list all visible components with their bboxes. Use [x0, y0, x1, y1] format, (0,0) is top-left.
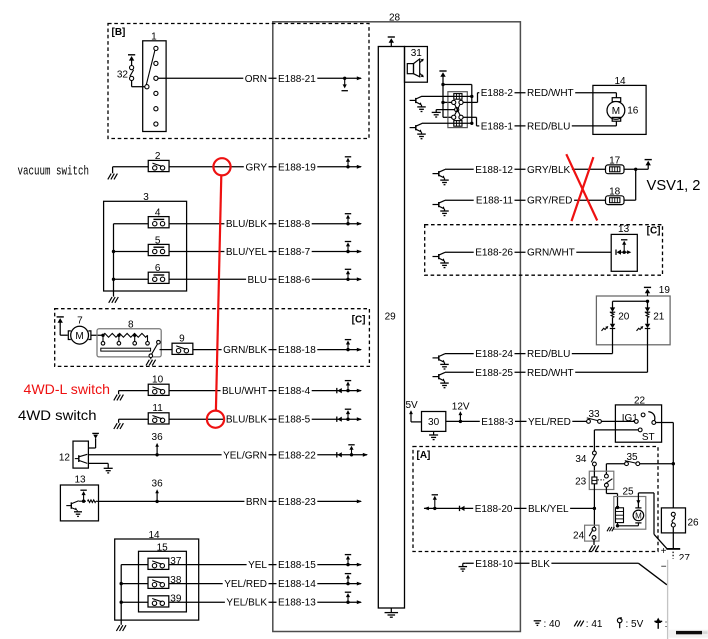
- pin label E188-6: [277, 275, 312, 286]
- wire colour label BLU/BLK: [224, 219, 268, 230]
- dashed box [C] left: [55, 309, 370, 367]
- starter switch 24: [585, 525, 599, 541]
- buzzer 31 box: [405, 47, 428, 83]
- wire colour label GRY: [244, 163, 269, 174]
- svg-text:12: 12: [59, 453, 71, 464]
- svg-text:9: 9: [179, 333, 185, 344]
- wire colour label BLU/WHT: [221, 386, 269, 397]
- wire E188-12 GRY/BLK: [445, 168, 606, 170]
- pin label E188-15: [277, 560, 318, 571]
- svg-text:ORN: ORN: [245, 74, 267, 85]
- wire colour label YEL: [247, 560, 269, 571]
- LED 21 emission arrow: [637, 327, 643, 331]
- overlay scrollbar thumb: [676, 631, 702, 634]
- svg-text:RED/BLU: RED/BLU: [527, 349, 570, 360]
- pull-up symbol on E188-15: [346, 563, 349, 566]
- svg-text:37: 37: [170, 556, 182, 567]
- wire E188-10 BLK ground: [463, 562, 465, 564]
- sensor 8 wiper track: [101, 348, 151, 351]
- sensor 12 element: [75, 458, 79, 460]
- sensor 13 series resistor: [88, 500, 96, 503]
- svg-text:29: 29: [385, 312, 397, 323]
- pull-up symbol on E188-22: [350, 453, 353, 456]
- switch 5: [148, 244, 169, 255]
- wire colour label YEL/RED: [527, 417, 573, 428]
- svg-text:E188-25: E188-25: [475, 368, 513, 379]
- svg-text:24: 24: [573, 531, 585, 542]
- transfer motor box 14: [593, 85, 646, 134]
- pin label E188-13: [277, 598, 318, 609]
- wire colour label GRY/BLK: [526, 165, 572, 176]
- pull-up symbol on E188-5: [346, 418, 349, 421]
- svg-text:35: 35: [626, 452, 638, 463]
- transistor driver T4 (E188-11): [433, 204, 439, 206]
- svg-text:BLK: BLK: [531, 559, 550, 570]
- wire GRY to pin E188-19: [169, 166, 361, 168]
- B+ feed to switch 32: [128, 54, 135, 56]
- relay coil lower: [422, 122, 472, 124]
- transistor driver T3 (E188-12): [433, 173, 439, 175]
- switch 1 common contact: [145, 85, 149, 89]
- pin label E188-21: [277, 74, 318, 85]
- wire E188-11 GRY/RED: [445, 199, 606, 201]
- wire VSV17 to B+: [624, 168, 648, 170]
- svg-text:E188-21: E188-21: [278, 74, 316, 85]
- rotary switch 1 body: [143, 41, 166, 132]
- wire E188-20 BLK/YEL: [424, 507, 429, 511]
- pull-up symbol on E188-19: [346, 165, 349, 168]
- svg-text:[C]: [C]: [647, 226, 661, 237]
- wire switch1 common to node: [132, 86, 145, 88]
- wire E188-26 GRN/WHT: [445, 251, 611, 253]
- wire colour label BLU: [246, 275, 268, 286]
- wire colour label BLU/YEL: [224, 247, 268, 258]
- svg-text:RED/BLU: RED/BLU: [527, 121, 570, 132]
- wire E188-24 RED/BLU: [445, 353, 613, 355]
- red trace line: [216, 175, 221, 410]
- svg-text:31: 31: [411, 48, 423, 59]
- relay contacts: [452, 100, 456, 104]
- svg-text:E188-26: E188-26: [475, 248, 513, 259]
- dashed box [B]: [108, 24, 369, 139]
- wire colour label RED/WHT: [526, 368, 576, 379]
- svg-text:BRN: BRN: [246, 497, 267, 508]
- starter 25 motor: [633, 510, 644, 521]
- junction node switch 38: [120, 582, 123, 585]
- svg-text:4WD-L switch: 4WD-L switch: [24, 381, 111, 397]
- wire BRN to pin E188-23: [99, 500, 362, 502]
- svg-text:E188-11: E188-11: [476, 196, 514, 207]
- sensor 13 transistor: [66, 505, 71, 507]
- pin label E188-3: [480, 417, 515, 428]
- bus wire left of switches 37-39: [121, 564, 148, 566]
- wire colour label BLU/BLK: [224, 415, 268, 426]
- B+ feed to sensor 12: [92, 432, 99, 434]
- ground 41 for switch 11: [118, 419, 120, 423]
- starter 25 solenoid coil: [616, 508, 624, 523]
- svg-text:GRY/BLK: GRY/BLK: [527, 165, 570, 176]
- pin label E188-10: [474, 559, 515, 570]
- pin label E188-22: [277, 451, 318, 462]
- svg-text:20: 20: [618, 312, 630, 323]
- wire motor 7 to sensor 8: [91, 334, 102, 336]
- wire YEL/GRN to pin E188-22: [88, 454, 367, 456]
- pin label E188-2: [479, 88, 514, 99]
- regulator 30 box: [422, 412, 446, 432]
- svg-text:−: −: [661, 561, 667, 572]
- sensor 13 body: [60, 485, 98, 521]
- wire ST to switch 34: [594, 429, 638, 431]
- transistor driver T7 (E188-25): [433, 376, 439, 378]
- pin label E188-18: [277, 345, 318, 356]
- pull-down symbol on E188-21: [343, 77, 346, 80]
- ignition switch contacts: [634, 420, 638, 424]
- transistor driver T5 (E188-26): [433, 256, 439, 258]
- pin label E188-7: [277, 247, 312, 258]
- svg-text:10: 10: [152, 375, 164, 386]
- pin label E188-1: [479, 122, 514, 133]
- svg-text:E188-10: E188-10: [475, 559, 513, 570]
- svg-text:BLU: BLU: [248, 275, 267, 286]
- motor 7: [68, 331, 71, 340]
- battery 27 positive plate: [666, 548, 680, 550]
- svg-text:E188-1: E188-1: [481, 121, 514, 132]
- position sensor 8 body: [97, 329, 161, 357]
- svg-text:13: 13: [618, 224, 630, 235]
- ground 40 in sensor 13: [74, 511, 82, 513]
- svg-text:5V: 5V: [406, 400, 419, 411]
- svg-text:8: 8: [128, 320, 134, 331]
- wire colour label YEL/BLK: [225, 598, 269, 609]
- wire VSV18 junction: [624, 199, 636, 201]
- fusible link 26 box: [661, 508, 685, 533]
- svg-text:12V: 12V: [452, 401, 470, 412]
- wire E188-3 YEL/RED: [446, 420, 587, 422]
- ignition switch 22 box: [615, 405, 661, 442]
- svg-text:: 5V: : 5V: [626, 619, 644, 630]
- wire colour label RED/WHT: [526, 88, 576, 99]
- svg-text:GRY: GRY: [246, 162, 268, 173]
- switch 9: [172, 343, 193, 354]
- wire BLU/BLK to pin E188-5: [169, 418, 361, 420]
- switch 1 contacts: [154, 46, 158, 50]
- switch 34: [593, 451, 597, 455]
- diode on E188-5: [336, 417, 338, 422]
- wire colour label RED/BLU: [526, 122, 572, 133]
- switch 4: [148, 217, 169, 228]
- vacuum switch 2: [148, 160, 169, 171]
- svg-text:4: 4: [155, 208, 161, 219]
- relay coil upper: [422, 95, 472, 97]
- svg-text:32: 32: [117, 69, 129, 80]
- pull-up symbol on E188-4: [346, 389, 349, 392]
- switch 35: [625, 462, 629, 466]
- sensor 12 body: [73, 441, 88, 468]
- wire colour label BLK: [530, 559, 552, 570]
- svg-text:E188-13: E188-13: [278, 598, 316, 609]
- svg-text:5: 5: [155, 235, 161, 246]
- wire BLU/BLK to pin E188-8: [169, 223, 361, 225]
- battery 27 dotted cell line: [672, 552, 674, 559]
- svg-text:15: 15: [157, 542, 169, 553]
- relay 23 contacts: [605, 474, 609, 478]
- wire colour label BLK/YEL: [527, 504, 571, 514]
- switch 1 lever: [146, 51, 155, 85]
- svg-text:E188-12: E188-12: [475, 165, 513, 176]
- VSV coil 17: [606, 165, 625, 174]
- wire E188-2 RED/WHT: [481, 92, 617, 94]
- wire wiper to switch 9: [160, 349, 173, 351]
- wire colour label RED/BLU: [526, 349, 572, 360]
- wire YEL/BLK to pin E188-13: [169, 601, 361, 603]
- B+ feed to motor relay: [439, 70, 446, 72]
- svg-text:1: 1: [151, 31, 157, 42]
- wire colour label BRN: [244, 497, 268, 508]
- svg-text:E188-7: E188-7: [278, 247, 311, 258]
- legend 5V symbol: [617, 618, 622, 623]
- pin label E188-24: [474, 349, 515, 360]
- ground 41 for sensor 8 wiper: [150, 358, 152, 360]
- 5V arrow: [410, 412, 412, 422]
- ground 41 for box 14: [116, 625, 119, 631]
- svg-text:+: +: [661, 546, 667, 557]
- svg-text:16: 16: [627, 106, 639, 117]
- pull-up symbol on E188-8: [346, 222, 349, 225]
- pin label E188-14: [277, 579, 318, 590]
- junction E188-20 on relay 23 line: [593, 507, 596, 510]
- B+ symbol on top of block 29: [388, 36, 395, 38]
- relay 23 coil: [593, 471, 595, 477]
- svg-text:E188-2: E188-2: [481, 88, 514, 99]
- dashed box [A]: [413, 447, 658, 552]
- bracket to E188-2: [463, 101, 477, 103]
- svg-text:33: 33: [588, 409, 600, 420]
- pull-up symbol on E188-18: [346, 348, 349, 351]
- transistor driver T2 (E188-1): [410, 127, 416, 129]
- junction node switch 6: [112, 278, 115, 281]
- svg-text:M: M: [635, 511, 642, 520]
- svg-text:E188-3: E188-3: [481, 417, 514, 428]
- wire GRN/BLK to pin E188-18: [193, 349, 361, 351]
- svg-text:2: 2: [155, 151, 161, 162]
- B+ feed for VSV: [645, 159, 652, 161]
- wire switch 33 to IG1: [601, 420, 634, 422]
- pull-up symbol on E188-7: [346, 250, 349, 253]
- legend ground 40 symbol: [534, 620, 541, 622]
- svg-text:BLU/BLK: BLU/BLK: [226, 219, 267, 230]
- noise symbol at starter 25: [607, 527, 610, 531]
- svg-text:6: 6: [155, 263, 161, 274]
- legend ground 41 symbol: [574, 621, 577, 627]
- white overlay panel: [668, 560, 708, 639]
- svg-text:E188-22: E188-22: [278, 450, 316, 461]
- pin label E188-4: [277, 386, 312, 397]
- svg-text:GRN/WHT: GRN/WHT: [527, 248, 575, 259]
- motor 16: [615, 93, 617, 98]
- wire colour label YEL/RED: [223, 579, 269, 590]
- sensor 12 ground wire: [88, 462, 108, 464]
- wire colour label GRY/RED: [526, 196, 575, 207]
- switch 39: [148, 596, 169, 607]
- red cross line 2: [572, 157, 594, 221]
- connector block 29 (tall box): [378, 47, 404, 609]
- junction node switch 5: [112, 250, 115, 253]
- svg-text:13: 13: [74, 475, 86, 486]
- pin label E188-19: [277, 163, 318, 174]
- svg-text:GRN/BLK: GRN/BLK: [223, 345, 267, 356]
- pin label E188-8: [277, 219, 312, 230]
- pull-up symbol on E188-14: [346, 582, 349, 585]
- svg-text:4WD switch: 4WD switch: [18, 407, 97, 423]
- switch 37: [148, 558, 169, 569]
- wire switch 35 right to battery line: [640, 463, 674, 465]
- svg-text:36: 36: [152, 432, 164, 443]
- fusible link element: [671, 512, 675, 516]
- sensor 8 taps: [101, 334, 104, 337]
- svg-text:E188-15: E188-15: [278, 560, 316, 571]
- starter 25 feed wire: [637, 493, 639, 508]
- switch 38: [148, 577, 169, 588]
- svg-text:11: 11: [152, 403, 163, 414]
- transistor driver T1 (E188-2): [410, 99, 416, 101]
- svg-text:17: 17: [609, 156, 621, 167]
- svg-text:RED/WHT: RED/WHT: [527, 88, 574, 99]
- motor relay body: [448, 92, 467, 128]
- wire colour label YEL/GRN: [222, 451, 269, 462]
- svg-text:VSV1, 2: VSV1, 2: [647, 178, 701, 194]
- ground 41 for switch 10: [118, 391, 120, 395]
- ground 40 under block 29: [390, 608, 392, 613]
- svg-text:YEL: YEL: [248, 560, 267, 571]
- diode on E188-20: [459, 506, 461, 511]
- wire ground to switch 2: [113, 166, 149, 168]
- svg-text:M: M: [75, 331, 83, 342]
- svg-text:RED/WHT: RED/WHT: [527, 368, 574, 379]
- pin label E188-20: [473, 504, 514, 514]
- switch 6: [148, 272, 169, 283]
- diode on E188-22: [336, 452, 338, 457]
- red highlight circle on BLU/BLK wire: [207, 411, 224, 428]
- svg-text:22: 22: [634, 396, 646, 407]
- svg-text:BLU/BLK: BLU/BLK: [226, 415, 267, 426]
- wire colour label ORN: [243, 74, 268, 85]
- svg-text:28: 28: [389, 12, 401, 23]
- svg-text:YEL/GRN: YEL/GRN: [223, 450, 267, 461]
- svg-text:25: 25: [622, 487, 634, 498]
- pull-up symbol on E188-13: [346, 601, 349, 604]
- wire colour label GRN/BLK: [222, 345, 269, 356]
- sensor 8 resistor element: [103, 333, 148, 337]
- B+ feed to box 19: [644, 286, 651, 288]
- relay common ground: [436, 109, 455, 111]
- wire YEL to pin E188-15: [169, 564, 361, 566]
- ground 40 for sensor 12: [104, 467, 113, 469]
- svg-text:21: 21: [653, 312, 665, 323]
- wire ORN to pin E188-21: [158, 77, 361, 79]
- pin label E188-5: [277, 415, 312, 426]
- LED 20 emission arrow: [602, 327, 608, 331]
- switch 33: [587, 420, 591, 424]
- diode on E188-4: [336, 388, 338, 393]
- wire BLU/WHT to pin E188-4: [169, 390, 361, 392]
- svg-text:E188-8: E188-8: [278, 219, 311, 230]
- wire E188-25 RED/WHT: [445, 371, 648, 373]
- svg-text:39: 39: [170, 594, 182, 605]
- red cross line 1: [566, 154, 597, 220]
- svg-text:19: 19: [659, 285, 671, 296]
- svg-text:[C]: [C]: [352, 314, 366, 325]
- svg-text:YEL/BLK: YEL/BLK: [226, 598, 267, 609]
- ground 41 for switch 2: [112, 167, 114, 173]
- wire BLU to pin E188-6: [169, 278, 361, 280]
- svg-text:vacuum switch: vacuum switch: [18, 163, 90, 178]
- bracket to E188-1: [463, 116, 476, 118]
- pin label E188-11: [474, 196, 515, 207]
- LED chain 20: [612, 301, 614, 307]
- svg-text:[B]: [B]: [112, 27, 126, 38]
- 12V arrow: [459, 413, 461, 422]
- ground 40 under regulator 30: [433, 431, 435, 435]
- svg-text:14: 14: [148, 530, 160, 541]
- svg-text:ST: ST: [642, 432, 655, 443]
- overlay scrollbar strip: [668, 630, 708, 638]
- svg-text:E188-6: E188-6: [278, 275, 311, 286]
- svg-text:E188-5: E188-5: [278, 415, 311, 426]
- B+ feed to motor 7: [57, 316, 64, 318]
- svg-text:E188-20: E188-20: [475, 504, 513, 515]
- junction node switch 39: [120, 601, 123, 604]
- VSV coil 18: [606, 196, 625, 205]
- relay 23 box: [589, 471, 614, 489]
- dashed box [C] right: [425, 225, 663, 276]
- sensor 13 right box: [611, 234, 637, 271]
- svg-text:30: 30: [428, 417, 440, 428]
- pin label E188-25: [474, 368, 515, 379]
- box 3 outline: [104, 201, 187, 291]
- wire BLK diagonal to battery negative: [639, 563, 667, 585]
- svg-text:M: M: [612, 106, 620, 117]
- buzzer 31 speaker symbol: [407, 64, 413, 74]
- svg-text:E188-14: E188-14: [278, 579, 316, 590]
- red highlight circle on GRY wire: [213, 158, 230, 175]
- svg-text:[A]: [A]: [417, 450, 431, 461]
- svg-text:7: 7: [77, 316, 83, 327]
- ground 41 under switch 24: [593, 539, 595, 545]
- wire IG common down right side: [656, 422, 674, 424]
- svg-text:3: 3: [143, 192, 149, 203]
- wire YEL/RED to pin E188-14: [169, 583, 361, 585]
- svg-text:BLU/YEL: BLU/YEL: [226, 247, 268, 258]
- overlay scrollbar thumb tail: [702, 631, 708, 634]
- relay feed rails: [443, 84, 472, 86]
- wire to battery positive: [654, 534, 667, 548]
- svg-text:34: 34: [575, 454, 587, 465]
- LED chain 21: [613, 300, 648, 302]
- svg-text:: 41: : 41: [586, 619, 603, 630]
- svg-text:26: 26: [688, 517, 700, 528]
- wire colour label GRN/WHT: [526, 248, 577, 259]
- ground 41 for box 3: [109, 297, 112, 303]
- transistor driver T6 (E188-24): [433, 357, 439, 359]
- 4WD-L switch 10: [148, 384, 169, 395]
- svg-text:E188-24: E188-24: [475, 349, 513, 360]
- svg-text:YEL/RED: YEL/RED: [528, 417, 571, 428]
- svg-text:YEL/RED: YEL/RED: [224, 579, 267, 590]
- svg-text:14: 14: [614, 76, 626, 87]
- sensor 13 pull-up: [79, 500, 86, 502]
- svg-text:E188-19: E188-19: [278, 162, 316, 173]
- svg-text:36: 36: [152, 479, 164, 490]
